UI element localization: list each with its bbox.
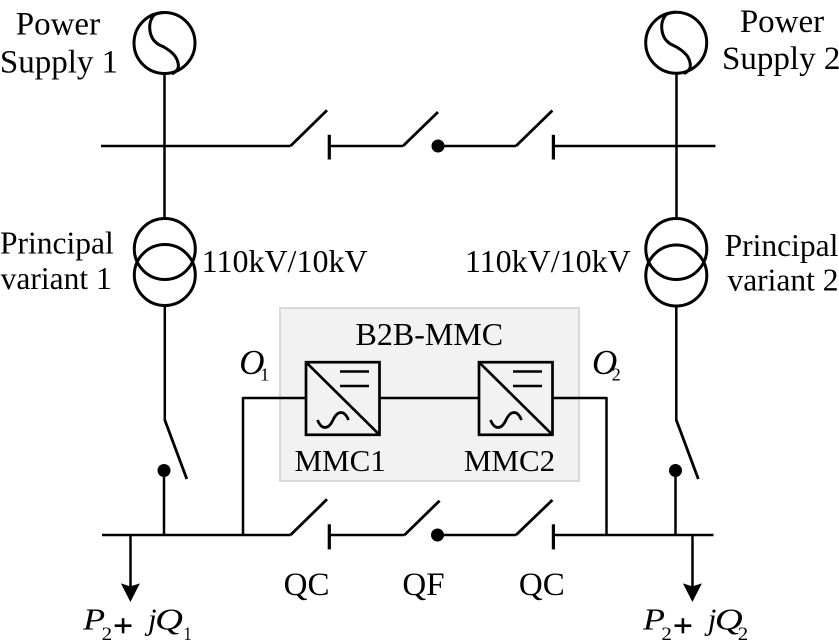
svg-text:Principal: Principal [0, 225, 114, 260]
svg-text:QC: QC [284, 567, 330, 603]
svg-text:2: 2 [661, 624, 672, 642]
svg-text:Principal: Principal [725, 228, 839, 263]
svg-text:2: 2 [612, 364, 621, 384]
svg-text:110kV/10kV: 110kV/10kV [465, 243, 631, 279]
svg-text:110kV/10kV: 110kV/10kV [202, 243, 368, 279]
svg-text:Q: Q [155, 602, 183, 637]
svg-text:MMC1: MMC1 [294, 443, 385, 478]
svg-text:Supply 1: Supply 1 [0, 45, 118, 81]
svg-text:Power: Power [740, 4, 824, 40]
svg-text:variant 2: variant 2 [727, 262, 838, 297]
svg-text:1: 1 [260, 364, 269, 384]
svg-text:2: 2 [738, 624, 749, 642]
svg-text:Supply 2: Supply 2 [722, 41, 839, 77]
svg-text:QC: QC [519, 567, 565, 603]
svg-text:2: 2 [102, 624, 113, 642]
svg-text:QF: QF [402, 567, 444, 603]
svg-text:1: 1 [184, 624, 192, 642]
svg-text:B2B-MMC: B2B-MMC [356, 316, 504, 352]
svg-text:Power: Power [16, 7, 100, 43]
svg-text:MMC2: MMC2 [464, 443, 555, 478]
svg-text:variant 1: variant 1 [1, 261, 112, 296]
